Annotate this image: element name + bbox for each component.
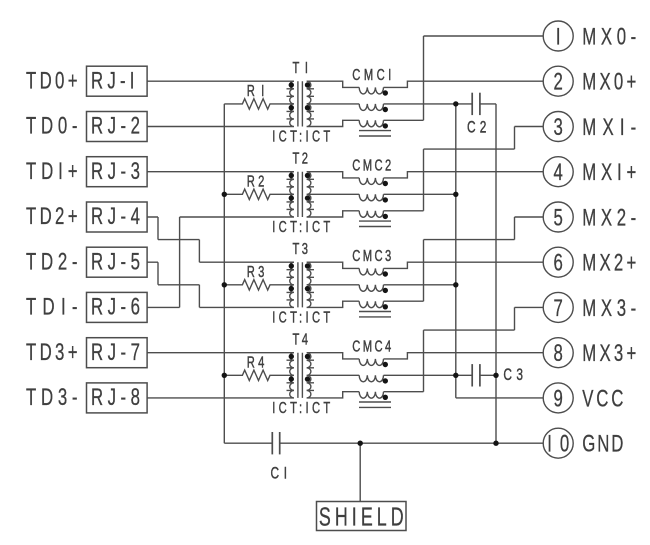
svg-text:MXI-: MXI- xyxy=(582,114,636,141)
svg-text:RJ-I: RJ-I xyxy=(91,68,134,95)
svg-text:TD0+: TD0+ xyxy=(26,68,78,95)
svg-text:CMC2: CMC2 xyxy=(352,156,391,175)
svg-text:MX2-: MX2- xyxy=(582,205,636,232)
svg-text:ICT:ICT: ICT:ICT xyxy=(272,217,330,236)
svg-text:2: 2 xyxy=(554,69,563,96)
svg-text:RJ-3: RJ-3 xyxy=(91,158,140,185)
svg-text:R4: R4 xyxy=(247,352,265,371)
svg-text:CMC4: CMC4 xyxy=(352,337,391,356)
svg-text:TD2-: TD2- xyxy=(26,249,78,276)
svg-text:MXI+: MXI+ xyxy=(582,159,636,186)
svg-text:TD3-: TD3- xyxy=(26,384,78,411)
svg-text:T3: T3 xyxy=(293,239,309,258)
svg-text:TDI+: TDI+ xyxy=(26,158,78,185)
svg-text:TD0-: TD0- xyxy=(26,113,78,140)
svg-text:8: 8 xyxy=(554,340,563,367)
svg-text:RI: RI xyxy=(247,81,264,100)
svg-text:MX0+: MX0+ xyxy=(582,69,636,96)
svg-text:RJ-2: RJ-2 xyxy=(91,113,140,140)
svg-text:5: 5 xyxy=(554,205,563,232)
svg-text:4: 4 xyxy=(554,159,563,186)
svg-text:I: I xyxy=(556,24,561,51)
svg-text:TD2+: TD2+ xyxy=(26,203,78,230)
svg-text:C2: C2 xyxy=(467,118,486,137)
svg-text:6: 6 xyxy=(554,250,563,277)
svg-text:3: 3 xyxy=(554,114,563,141)
svg-text:RJ-5: RJ-5 xyxy=(91,249,140,276)
svg-text:GND: GND xyxy=(582,431,623,458)
svg-text:ICT:ICT: ICT:ICT xyxy=(272,127,330,146)
svg-text:MX3-: MX3- xyxy=(582,295,636,322)
svg-text:SHIELD: SHIELD xyxy=(319,503,404,532)
svg-text:R3: R3 xyxy=(247,262,265,281)
svg-text:I0: I0 xyxy=(547,431,569,458)
svg-text:MX0-: MX0- xyxy=(582,24,636,51)
svg-text:TDI-: TDI- xyxy=(26,294,78,321)
svg-text:ICT:ICT: ICT:ICT xyxy=(272,398,330,417)
svg-text:CI: CI xyxy=(271,464,288,483)
svg-text:T4: T4 xyxy=(293,329,309,348)
svg-text:RJ-7: RJ-7 xyxy=(91,339,140,366)
svg-text:MX2+: MX2+ xyxy=(582,250,636,277)
svg-text:ICT:ICT: ICT:ICT xyxy=(272,308,330,327)
svg-text:C3: C3 xyxy=(503,366,523,385)
svg-text:CMC3: CMC3 xyxy=(352,246,391,265)
svg-text:9: 9 xyxy=(554,385,563,412)
svg-text:TD3+: TD3+ xyxy=(26,339,78,366)
svg-text:CMCI: CMCI xyxy=(352,65,391,84)
svg-text:R2: R2 xyxy=(247,171,264,190)
svg-text:RJ-8: RJ-8 xyxy=(91,384,140,411)
svg-text:7: 7 xyxy=(554,295,563,322)
svg-text:VCC: VCC xyxy=(582,385,623,412)
svg-text:T2: T2 xyxy=(293,148,308,167)
svg-text:RJ-6: RJ-6 xyxy=(91,294,140,321)
svg-text:TI: TI xyxy=(293,58,308,77)
svg-text:MX3+: MX3+ xyxy=(582,340,636,367)
svg-text:RJ-4: RJ-4 xyxy=(91,203,140,230)
